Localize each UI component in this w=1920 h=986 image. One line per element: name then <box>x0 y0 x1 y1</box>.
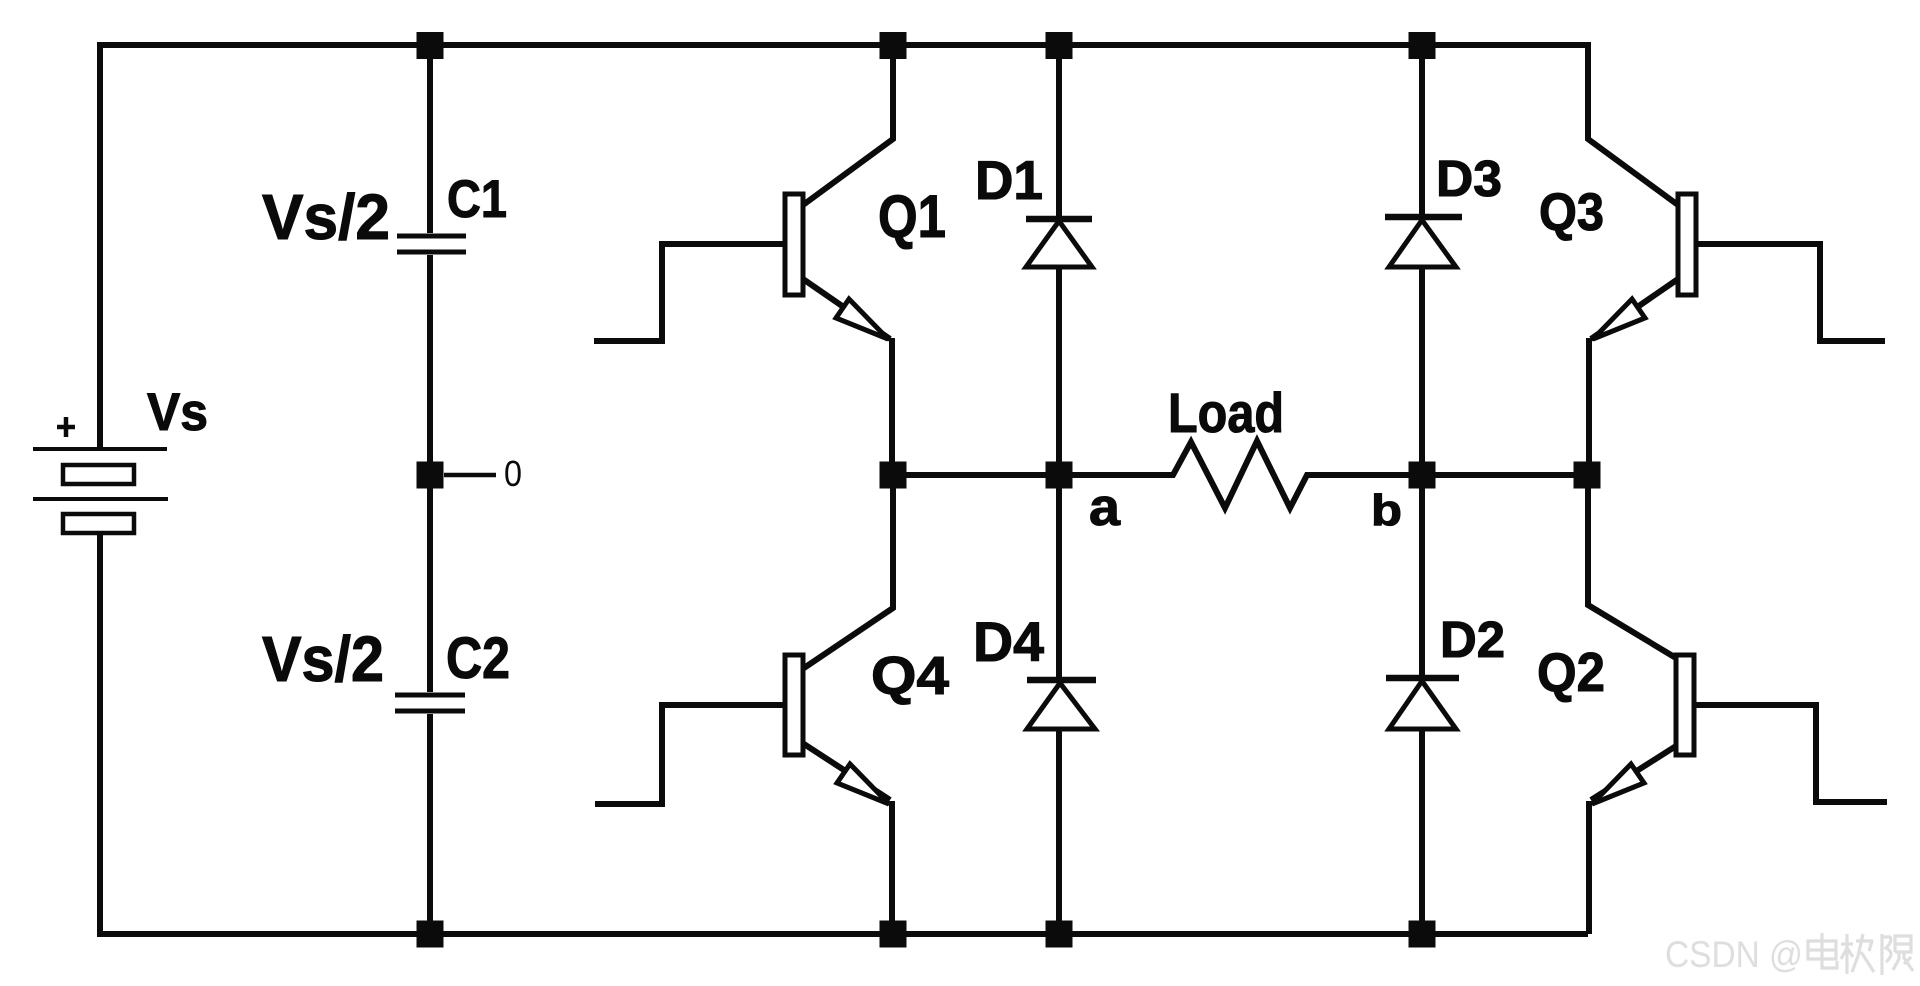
svg-text:Vs/2: Vs/2 <box>262 181 390 253</box>
wire C2 to bottom rail <box>427 714 433 934</box>
transistor Q1 <box>594 45 893 475</box>
wire C1 to node 0 <box>427 255 433 475</box>
capacitor C1 <box>397 236 466 252</box>
watermark CSDN <box>1665 933 1913 975</box>
node top D1 <box>1046 32 1073 59</box>
svg-text:a: a <box>1089 478 1121 537</box>
transistor Q4 <box>595 475 893 934</box>
svg-text:D2: D2 <box>1440 611 1505 668</box>
wire bottom left rail and bottom rail <box>100 533 1588 934</box>
svg-text:Q1: Q1 <box>878 183 946 250</box>
node a junction <box>1046 462 1073 489</box>
node bottom D2 <box>1409 921 1436 948</box>
node top Q1 <box>880 32 907 59</box>
battery Vs <box>33 417 168 533</box>
node bottom Q4 <box>880 921 907 948</box>
node top D3 <box>1409 32 1436 59</box>
wire capacitor branch upper <box>427 45 433 233</box>
svg-text:D1: D1 <box>975 149 1043 211</box>
svg-text:Vs/2: Vs/2 <box>262 623 384 695</box>
transistor Q3 <box>1588 42 1885 475</box>
diode D4 <box>1027 680 1096 934</box>
node mid right <box>1574 462 1601 489</box>
svg-text:D4: D4 <box>973 610 1044 673</box>
wire top rail and left rail down to battery <box>100 45 1588 449</box>
wire node 0 to C2 <box>427 475 433 692</box>
svg-text:CSDN @: CSDN @ <box>1665 934 1803 975</box>
svg-text:Q3: Q3 <box>1539 183 1604 242</box>
node 0 <box>417 462 444 489</box>
node bottom C <box>417 921 444 948</box>
svg-text:D3: D3 <box>1436 150 1502 207</box>
svg-text:C2: C2 <box>446 626 510 691</box>
svg-text:b: b <box>1371 486 1402 535</box>
svg-text:C1: C1 <box>447 170 507 229</box>
wire node 0 stub <box>444 473 496 478</box>
node mid Q1Q4 <box>880 462 907 489</box>
diode D3 <box>1385 45 1462 675</box>
node bottom D4 <box>1046 921 1073 948</box>
node b junction <box>1409 462 1436 489</box>
node top C <box>417 32 444 59</box>
capacitor C2 <box>395 695 465 711</box>
wire middle with load resistor zigzag <box>893 441 1588 508</box>
svg-text:Load: Load <box>1168 381 1284 444</box>
svg-text:0: 0 <box>504 453 522 494</box>
svg-text:Q4: Q4 <box>871 646 949 706</box>
transistor Q2 <box>1588 475 1887 934</box>
diode D1 <box>1026 45 1092 677</box>
svg-text:Q2: Q2 <box>1537 641 1605 703</box>
svg-text:Vs: Vs <box>147 383 208 442</box>
diode D2 <box>1386 678 1459 934</box>
